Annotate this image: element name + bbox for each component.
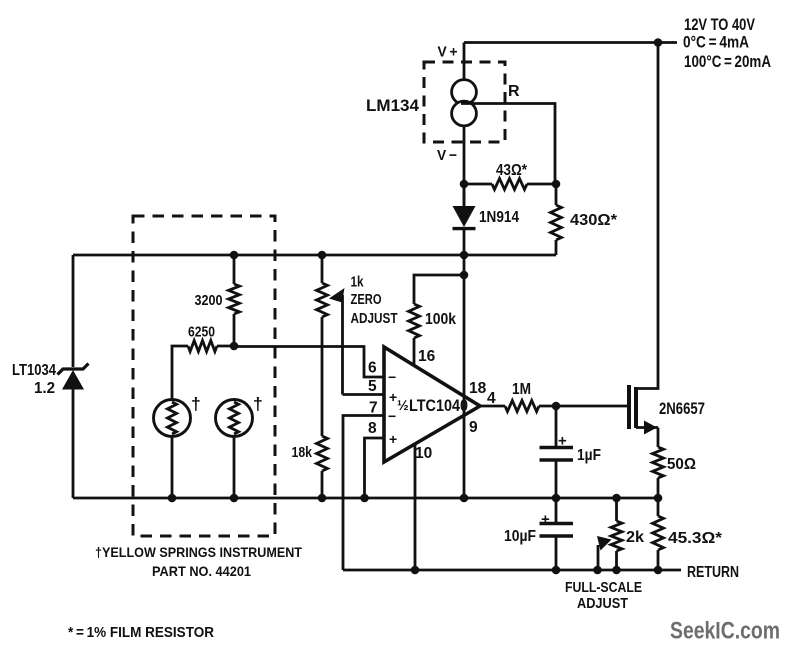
- node 2k top junction: [612, 494, 621, 503]
- resistor 1M: [505, 401, 628, 412]
- label 2N6657: [659, 400, 705, 418]
- svg-text:430Ω*: 430Ω*: [570, 212, 618, 229]
- wire left rail upper: [72, 255, 75, 367]
- resistor 45.3 ohm: [653, 498, 664, 570]
- label full-scale adjust: [565, 579, 642, 612]
- label dagger RT2: [253, 394, 263, 414]
- thermistor RT1: [154, 400, 191, 437]
- wire Q1 drain lead: [636, 43, 658, 389]
- current source LM134 circles: [452, 80, 477, 126]
- node pin 8 ground junction: [360, 494, 369, 503]
- wire 1uF top lead: [555, 406, 558, 446]
- label 45.3 ohm: [668, 530, 723, 547]
- label 43 ohm: [496, 162, 528, 179]
- svg-text:9: 9: [469, 419, 478, 436]
- label dagger RT1: [191, 394, 201, 414]
- wire V+ supply rail (top horizontal): [464, 41, 677, 44]
- node pin 10 return junction: [411, 566, 420, 575]
- transistor Q1 2N6657 gate bar: [627, 385, 631, 429]
- wire pins 18-9 rail: [463, 255, 466, 498]
- node RT1 ground junction: [168, 494, 177, 503]
- svg-text:100k: 100k: [425, 311, 456, 328]
- label 430 ohm: [570, 212, 618, 229]
- svg-text:V +: V +: [438, 44, 458, 61]
- svg-text:4: 4: [487, 390, 496, 407]
- wire pin 5 net from wiper: [343, 393, 385, 396]
- wire return bus horizontal: [343, 569, 681, 572]
- node 1N914 anode junction: [460, 251, 469, 260]
- wiper arrow 1k pot: [329, 288, 345, 395]
- label V- pin: [437, 147, 457, 164]
- svg-text:+: +: [558, 433, 567, 450]
- wire pin 10 lead: [414, 445, 417, 571]
- node RT2 ground junction: [230, 494, 239, 503]
- label 2k: [626, 529, 644, 546]
- wire RT2 bottom lead: [233, 437, 236, 499]
- label Yellow Springs note: [95, 544, 302, 579]
- wire op-amp output pin 4: [480, 405, 505, 408]
- wire pin 7 net to return bus: [343, 416, 384, 571]
- node 100k top junction: [460, 271, 469, 280]
- label 100k: [425, 311, 456, 328]
- svg-text:RETURN: RETURN: [687, 564, 739, 581]
- svg-text:50Ω: 50Ω: [667, 456, 696, 473]
- svg-text:6250: 6250: [188, 324, 215, 341]
- label V+ pin: [438, 44, 458, 61]
- svg-text:ADJUST: ADJUST: [351, 311, 398, 327]
- label RETURN: [687, 564, 739, 581]
- svg-text:LTC1040: LTC1040: [409, 397, 468, 415]
- node 43 ohm left junction: [460, 180, 469, 189]
- wire LM134 V- lead: [463, 126, 466, 206]
- label LT1034: [12, 362, 56, 397]
- svg-text:1k: 1k: [351, 275, 365, 291]
- node 18k ground junction: [318, 494, 327, 503]
- svg-text:†: †: [191, 394, 201, 414]
- wire pin 6 net from bridge: [234, 347, 384, 378]
- svg-text:16: 16: [418, 348, 436, 365]
- node 45.3 ohm return junction: [654, 566, 663, 575]
- svg-text:5: 5: [368, 378, 377, 395]
- svg-text:1.2: 1.2: [34, 380, 55, 397]
- label pin 16: [418, 348, 436, 365]
- svg-text:2k: 2k: [626, 529, 644, 546]
- svg-text:+: +: [541, 511, 550, 528]
- svg-text:†: †: [253, 394, 263, 414]
- resistor 50 ohm: [653, 447, 664, 498]
- svg-text:+: +: [389, 431, 397, 447]
- potentiometer 2k full-scale adjust: [611, 498, 622, 570]
- dashed box Yellow Springs sensor: [133, 216, 275, 536]
- svg-text:10µF: 10µF: [504, 528, 536, 545]
- wire 10uF top lead: [555, 498, 558, 522]
- svg-text:FULL-SCALE: FULL-SCALE: [565, 579, 642, 596]
- svg-text:1M: 1M: [512, 381, 531, 398]
- label pin 4: [487, 390, 496, 407]
- wire LM134 V+ lead: [463, 43, 466, 82]
- label pin 5: [368, 378, 377, 395]
- transistor Q1 channel bar: [634, 387, 638, 428]
- label pin 7: [369, 400, 378, 417]
- node gate RC junction: [552, 402, 561, 411]
- node 43 ohm right junction: [552, 180, 561, 189]
- svg-text:+: +: [389, 389, 397, 405]
- svg-text:* = 1% FILM RESISTOR: * = 1% FILM RESISTOR: [68, 625, 214, 641]
- wire reference node horizontal: [73, 254, 556, 257]
- capacitor C2 10uF: [540, 524, 574, 571]
- label minus pin 6: [388, 369, 396, 385]
- svg-text:†YELLOW SPRINGS INSTRUMENT: †YELLOW SPRINGS INSTRUMENT: [95, 544, 302, 560]
- svg-text:45.3Ω*: 45.3Ω*: [668, 530, 723, 547]
- svg-text:18: 18: [469, 380, 487, 397]
- label 18k: [292, 444, 313, 461]
- resistor 3200: [229, 255, 240, 346]
- resistor 100k: [409, 275, 465, 366]
- node supply junction: [654, 38, 663, 47]
- node 1k pot top junction: [318, 251, 327, 260]
- svg-text:LT1034: LT1034: [12, 362, 56, 379]
- node 6250-3200 junction: [230, 342, 239, 351]
- current source U2 LM134 dashed box: [424, 62, 505, 142]
- resistor 6250: [172, 341, 234, 401]
- label 1k zero adjust: [351, 275, 398, 328]
- node 50 ohm ground junction: [654, 494, 663, 503]
- node 10uF return junction: [552, 566, 561, 575]
- label 1uF: [577, 447, 601, 464]
- wiper arrow 2k pot: [597, 536, 612, 570]
- svg-text:PART NO. 44201: PART NO. 44201: [152, 563, 251, 579]
- label pin 10: [415, 445, 432, 462]
- op-amp U1 half LTC1040: [384, 347, 480, 462]
- node 1uF ground junction: [552, 494, 561, 503]
- wire Q1 source lead with arrow: [636, 421, 658, 448]
- resistor 18k: [317, 436, 328, 498]
- svg-text:−: −: [388, 369, 396, 385]
- svg-text:6: 6: [368, 360, 377, 377]
- label minus pin 7: [388, 408, 396, 424]
- thermistor RT2: [216, 400, 253, 437]
- potentiometer 1k zero adjust: [317, 255, 328, 436]
- svg-text:ADJUST: ADJUST: [577, 595, 628, 612]
- label 50 ohm: [667, 456, 696, 473]
- node 3200 top junction: [230, 251, 239, 260]
- label 1N914: [479, 209, 519, 226]
- label pin 6: [368, 360, 377, 377]
- label film resistor note: [68, 625, 214, 641]
- svg-text:1µF: 1µF: [577, 447, 601, 464]
- svg-text:−: −: [388, 408, 396, 424]
- label 1M: [512, 381, 531, 398]
- svg-text:V −: V −: [437, 147, 457, 164]
- label 3200: [195, 292, 223, 309]
- svg-text:0°C = 4mA: 0°C = 4mA: [683, 33, 749, 52]
- svg-text:R: R: [508, 83, 520, 100]
- wire ground bus horizontal: [73, 497, 658, 500]
- svg-text:½: ½: [397, 397, 409, 413]
- label supply voltage: [683, 15, 771, 71]
- node 2k bottom return junction: [612, 566, 621, 575]
- label 10uF plus: [541, 511, 550, 528]
- label plus pin 5: [389, 389, 397, 405]
- label 1uF plus: [558, 433, 567, 450]
- label LM134: [366, 96, 420, 115]
- svg-text:7: 7: [369, 400, 378, 417]
- svg-text:43Ω*: 43Ω*: [496, 162, 528, 179]
- svg-text:12V TO 40V: 12V TO 40V: [684, 15, 755, 34]
- diode D1 1N914: [453, 184, 476, 255]
- capacitor C1 1uF: [540, 448, 574, 499]
- label 10uF: [504, 528, 536, 545]
- svg-text:2N6657: 2N6657: [659, 400, 705, 418]
- label R pin: [508, 83, 520, 100]
- label pin 18: [469, 380, 487, 397]
- node pins 18-9 ground junction: [460, 494, 469, 503]
- label plus pin 8: [389, 431, 397, 447]
- svg-text:SeekIC.com: SeekIC.com: [670, 618, 780, 645]
- svg-text:18k: 18k: [292, 444, 313, 461]
- watermark SeekIC.com: [670, 618, 780, 645]
- wire RT1 bottom lead: [171, 437, 174, 499]
- svg-text:3200: 3200: [195, 292, 223, 309]
- label half LTC1040: [397, 397, 468, 415]
- svg-text:1N914: 1N914: [479, 209, 519, 226]
- svg-text:100°C = 20mA: 100°C = 20mA: [684, 52, 771, 71]
- wire LM134 R pin to 430 ohm top: [461, 104, 555, 185]
- svg-text:LM134: LM134: [366, 96, 420, 115]
- wire pin 8 net to ground bus: [365, 438, 385, 498]
- resistor 430 ohm: [551, 184, 562, 255]
- svg-text:8: 8: [368, 420, 377, 437]
- label pin 8: [368, 420, 377, 437]
- resistor 43 ohm: [464, 179, 556, 190]
- diode Z1 LT1034 1.2 zener: [58, 364, 89, 499]
- label 6250: [188, 324, 215, 341]
- node 2k wiper return junction: [593, 566, 602, 575]
- label pin 9: [469, 419, 478, 436]
- svg-text:ZERO: ZERO: [351, 292, 382, 308]
- svg-text:10: 10: [415, 445, 432, 462]
